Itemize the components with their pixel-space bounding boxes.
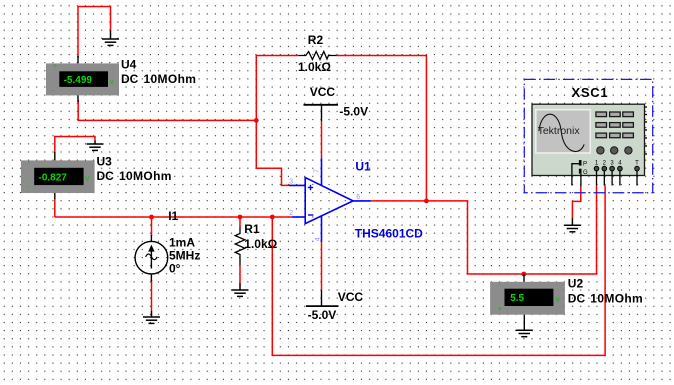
terminal 3 — [610, 161, 615, 186]
oscilloscope buttons — [596, 112, 633, 138]
svg-text:U1: U1 — [355, 160, 371, 174]
wire node A up to R2 left lead — [256, 56, 298, 121]
svg-text:THS4601CD: THS4601CD — [355, 227, 423, 241]
terminal T — [635, 161, 640, 186]
resistor R1 — [235, 227, 245, 265]
wire U4 bottom pin to node A — [78, 100, 256, 120]
node U2 junction — [521, 272, 526, 277]
oscilloscope screen with sine wave and Tektronix logo — [536, 110, 591, 153]
oscilloscope knobs — [597, 147, 632, 154]
terminal P — [572, 160, 587, 185]
svg-text:V: V — [110, 79, 115, 86]
ground — [143, 311, 160, 323]
svg-text:-5.0V: -5.0V — [308, 308, 337, 322]
terminal 1 — [594, 161, 599, 186]
svg-text:5.5: 5.5 — [510, 293, 524, 304]
node R1 junction — [238, 215, 243, 220]
wire I1 bottom pin to ground — [151, 280, 153, 311]
svg-text:-0.827: -0.827 — [39, 172, 68, 183]
ground — [232, 283, 249, 296]
op-amp U1 — [289, 158, 371, 241]
terminal 2 — [602, 161, 607, 186]
oscilloscope body — [532, 104, 647, 175]
wire scope G terminal to ground — [572, 187, 580, 218]
terminal G — [579, 169, 588, 187]
ground U2 bottom — [516, 330, 533, 336]
svg-text:4: 4 — [315, 237, 322, 241]
power supply VCC bottom — [306, 290, 339, 306]
node output junction — [424, 199, 429, 204]
node feedback junction — [270, 215, 275, 220]
wire U3 bottom pin to bottom rail — [54, 198, 56, 217]
svg-text:U3: U3 — [97, 154, 113, 168]
svg-text:7: 7 — [314, 169, 321, 173]
multimeter U4 — [46, 56, 119, 102]
svg-text:R1: R1 — [244, 222, 260, 236]
current source I1 — [135, 235, 168, 281]
svg-text:XSC1: XSC1 — [572, 85, 609, 100]
wire node A down to op-amp pin 3 — [256, 120, 290, 185]
svg-text:1.0kΩ: 1.0kΩ — [298, 60, 331, 74]
wire op-amp pin 4 to VCC bottom supply — [321, 242, 323, 291]
oscilloscope XSC1 dashed border — [524, 79, 652, 192]
svg-text:VCC: VCC — [338, 290, 364, 304]
svg-text:T: T — [635, 161, 639, 167]
multimeter U3 — [21, 152, 95, 199]
wire R1 bottom lead to ground — [239, 265, 241, 283]
svg-text:Tektronix: Tektronix — [538, 125, 581, 137]
wire VCC top supply to op-amp pin 7 — [321, 121, 323, 158]
svg-text:VCC: VCC — [310, 85, 336, 99]
power supply VCC top — [304, 105, 339, 122]
terminal 4 — [618, 161, 623, 186]
svg-text:5MHz: 5MHz — [169, 248, 200, 262]
value label DC 10MOhm — [568, 292, 643, 306]
svg-text:U2: U2 — [568, 276, 584, 290]
ground — [564, 218, 581, 232]
svg-text:I1: I1 — [168, 209, 178, 223]
svg-text:6: 6 — [356, 194, 360, 201]
svg-text:V: V — [85, 175, 90, 182]
resistor R2 — [299, 52, 337, 60]
svg-text:1.0kΩ: 1.0kΩ — [244, 237, 277, 251]
wire U3 top pin to ground — [55, 137, 95, 154]
multimeter U2 — [490, 274, 565, 330]
wire bottom rail to op-amp pin 2 — [55, 216, 292, 218]
node I1 junction — [149, 215, 154, 220]
wire R1 top lead to bottom rail — [239, 217, 241, 227]
svg-text:R2: R2 — [308, 33, 324, 47]
svg-text:P: P — [583, 161, 587, 167]
value label DC 10MOhm — [121, 72, 196, 86]
node A junction — [254, 118, 259, 123]
svg-text:+: + — [498, 306, 502, 313]
svg-text:+: + — [53, 63, 57, 70]
svg-text:1mA: 1mA — [169, 235, 195, 249]
svg-text:-5.0V: -5.0V — [339, 105, 368, 119]
ground — [87, 141, 104, 151]
svg-text:DC: DC — [97, 169, 115, 183]
ground — [102, 31, 119, 46]
wire op-amp output pin 6 to scope channel 1 — [371, 186, 597, 275]
svg-text:G: G — [583, 170, 588, 176]
wire R2 right lead to output node — [337, 56, 427, 201]
wire bottom rail feedback to scope channel 2 — [272, 186, 605, 356]
wire I1 top pin to bottom rail — [151, 217, 153, 236]
svg-text:DC: DC — [568, 292, 586, 306]
svg-text:10MOhm: 10MOhm — [144, 72, 197, 86]
wire U4 top pin to ground — [78, 7, 111, 59]
svg-text:10MOhm: 10MOhm — [119, 169, 172, 183]
svg-text:V: V — [556, 296, 561, 303]
value label 1mA 5MHz 0 deg — [169, 235, 200, 275]
svg-text:U4: U4 — [121, 58, 137, 72]
svg-text:3: 3 — [289, 179, 293, 186]
value label DC 10MOhm — [97, 169, 172, 183]
svg-text:-5.499: -5.499 — [64, 75, 93, 86]
svg-text:DC: DC — [121, 72, 139, 86]
svg-text:2: 2 — [289, 210, 293, 217]
svg-text:0°: 0° — [169, 261, 181, 275]
svg-text:10MOhm: 10MOhm — [590, 292, 643, 306]
